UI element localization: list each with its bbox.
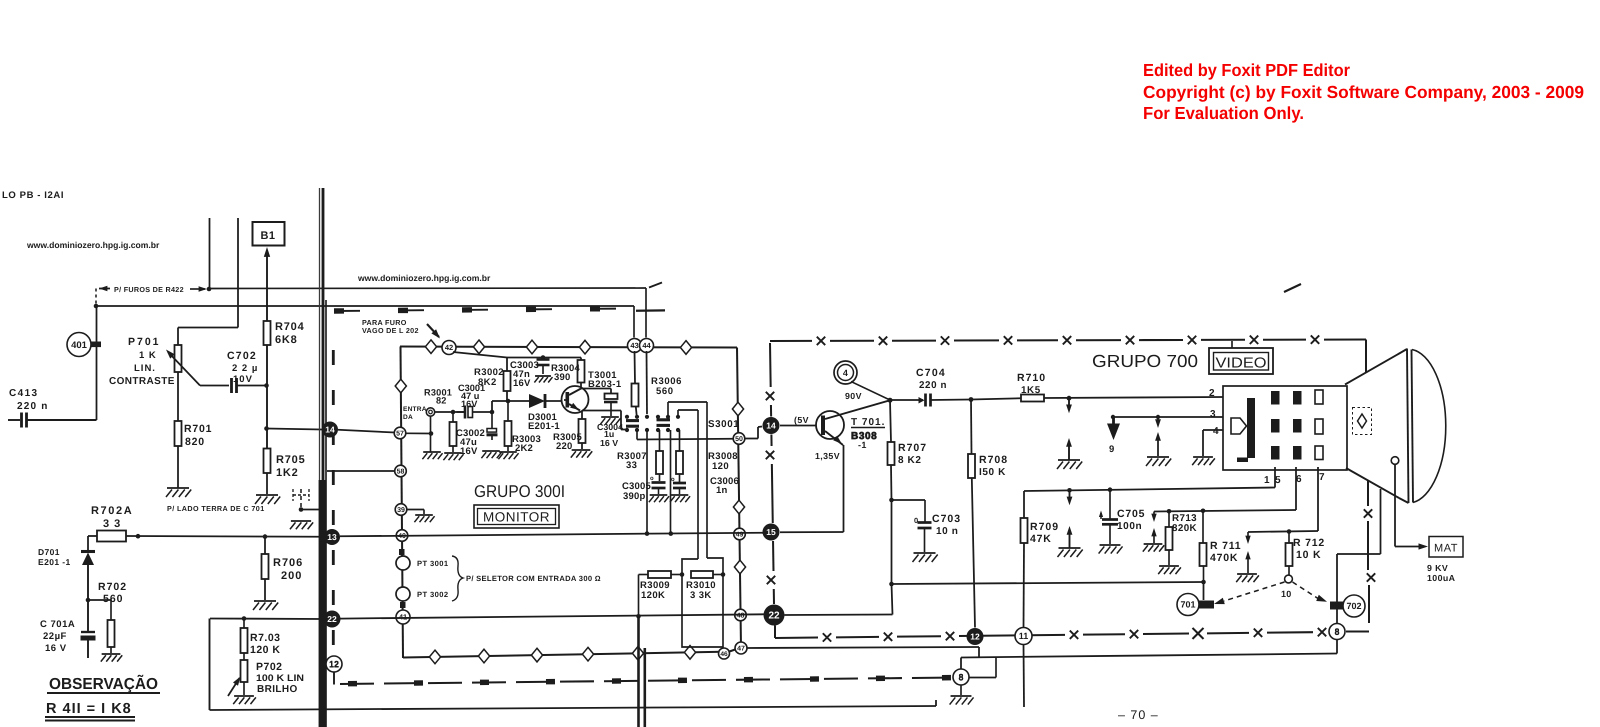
stray mark [649, 283, 662, 288]
junction [888, 398, 893, 403]
svg-text:R704: R704 [275, 321, 305, 333]
svg-text:43: 43 [630, 341, 638, 350]
svg-text:120 K: 120 K [250, 644, 281, 656]
node 701 [1177, 594, 1199, 616]
node 22R [764, 605, 785, 626]
svg-text:9 KV: 9 KV [1427, 563, 1448, 573]
svg-text:16 V: 16 V [45, 643, 67, 654]
svg-text:12: 12 [329, 659, 339, 669]
x mark [1126, 336, 1134, 344]
resistor R704 [264, 321, 305, 346]
wire R701 to ground [177, 446, 179, 488]
svg-text:P/ LADO TERRA DE C 701: P/ LADO TERRA DE C 701 [167, 504, 265, 513]
wire node11 down [1023, 645, 1026, 708]
label T3001 [588, 370, 622, 390]
ground [1099, 545, 1123, 554]
label R3008 [708, 451, 738, 472]
resistor R3002 [504, 358, 511, 402]
svg-text:46: 46 [720, 651, 728, 658]
svg-text:58: 58 [397, 469, 405, 476]
diamond marker right [734, 560, 745, 574]
ground [600, 417, 620, 424]
diamond marker left [395, 379, 406, 393]
wire R711 to 701 [1203, 582, 1205, 600]
x mark [946, 632, 954, 640]
svg-text:9: 9 [1109, 444, 1114, 455]
crt anode [1391, 457, 1399, 465]
capacitor C3005 [650, 476, 666, 494]
wire bus y617 node41 to node22R [340, 614, 764, 618]
diode D701 [81, 552, 95, 632]
grupo700 left dashed border [770, 343, 774, 604]
wire sec2 mid drop [669, 430, 674, 536]
pin label 3 [1210, 409, 1216, 420]
resistor R3005 [579, 411, 586, 450]
pin label 5 [1275, 475, 1281, 486]
wire pin6 riser [1295, 467, 1297, 510]
node 10 [1285, 575, 1293, 583]
ground [101, 654, 122, 662]
svg-text:7: 7 [1319, 472, 1325, 483]
svg-text:390p: 390p [623, 491, 645, 502]
point PT3002 [396, 587, 410, 601]
resistor R703 [241, 619, 281, 657]
label D3001 [528, 412, 560, 432]
svg-text:1n: 1n [716, 485, 728, 496]
diamond marker top [579, 340, 590, 354]
label R3010 [686, 580, 716, 601]
svg-text:For Evaluation Only.: For Evaluation Only. [1143, 103, 1304, 123]
label B308 [851, 431, 877, 450]
heavy dashed line bottom [340, 678, 955, 685]
Foxit watermark text line 3 [1143, 103, 1304, 123]
pin label 6 [1296, 474, 1302, 485]
potentiometer P701 [175, 345, 182, 372]
wire bus y536 R702A to node13 [126, 534, 324, 539]
svg-text:CONTRASTE: CONTRASTE [109, 376, 175, 387]
svg-text:1K2: 1K2 [276, 467, 299, 479]
pin block [1271, 446, 1302, 460]
capacitor C3006 [671, 477, 686, 494]
diamond marker right [733, 500, 744, 514]
box VIDEO [1209, 341, 1273, 374]
svg-text:C705: C705 [1117, 508, 1145, 520]
svg-text:50: 50 [735, 436, 743, 443]
wire to node 14L [267, 429, 323, 430]
svg-text:11: 11 [1019, 631, 1029, 641]
svg-text:47: 47 [737, 646, 745, 653]
label C3003 [510, 360, 539, 389]
switch S3001 [625, 415, 680, 432]
x mark [766, 392, 774, 400]
ground [253, 601, 278, 610]
wire crt coat down [1337, 489, 1381, 554]
wire P702 gnd [243, 682, 245, 695]
wire node43 drop [634, 351, 637, 384]
resistor R711 [1200, 511, 1207, 585]
diamond marker top [680, 341, 691, 355]
resistor R708 [968, 400, 975, 628]
svg-text:22: 22 [768, 611, 780, 622]
svg-text:4: 4 [1213, 426, 1219, 437]
svg-text:3 3K: 3 3K [690, 590, 712, 601]
svg-text:P/ SELETOR COM ENTRADA 300 Ω: P/ SELETOR COM ENTRADA 300 Ω [466, 574, 601, 583]
svg-text:C703: C703 [932, 513, 961, 525]
ground [255, 495, 280, 504]
svg-text:R707: R707 [898, 442, 927, 454]
label OBSERVACAO [47, 674, 160, 693]
svg-text:Edited by Foxit PDF Editor: Edited by Foxit PDF Editor [1143, 60, 1350, 80]
svg-text:R 4II = I K8: R 4II = I K8 [46, 701, 132, 717]
node 14R [763, 417, 780, 434]
diode D3001 [529, 394, 545, 408]
crt bell [1412, 350, 1446, 503]
ground [443, 453, 463, 460]
ground [534, 376, 552, 382]
wire 14L to node 57 [338, 430, 395, 433]
svg-text:560: 560 [103, 593, 124, 605]
svg-text:220: 220 [556, 441, 572, 452]
label R711 [1210, 540, 1241, 564]
svg-text:– 70 –: – 70 – [1118, 708, 1159, 722]
diamond marker top [473, 340, 484, 354]
svg-text:10 K: 10 K [1296, 549, 1321, 561]
wire P701 to R701 [177, 372, 179, 421]
svg-text:10: 10 [1281, 589, 1291, 599]
label R712 [1293, 537, 1325, 561]
wire R703 to P702 [243, 653, 245, 660]
junction [969, 397, 974, 402]
wire emitter to S3001 [582, 411, 626, 430]
model label PB-12AI [2, 190, 64, 201]
svg-text:C 701A: C 701A [40, 619, 75, 630]
resistor R709 [1021, 491, 1028, 628]
diamond marker bottom [478, 649, 489, 663]
node 22L [324, 611, 341, 628]
node 48 [735, 609, 747, 621]
svg-text:LIN.: LIN. [134, 363, 156, 374]
svg-text:R709: R709 [1030, 521, 1059, 533]
resistor R710 [1021, 395, 1044, 402]
svg-text:8: 8 [1334, 627, 1339, 637]
svg-text:8 K2: 8 K2 [898, 455, 922, 466]
box B1 [253, 222, 285, 246]
svg-text:DA: DA [403, 414, 413, 421]
node 8 [1329, 624, 1345, 640]
dashed arrow to 701 [1214, 582, 1285, 604]
page number [1118, 708, 1159, 722]
grupo700 corner right [1365, 340, 1367, 373]
diamond marker bottom [582, 647, 593, 661]
capacitor C705 [1102, 490, 1118, 544]
wire node42 diagonal [453, 352, 507, 358]
wire dashed jumper x96 [95, 289, 97, 307]
capacitor C703 [892, 500, 932, 552]
svg-text:www.dominiozero.hpg.ig.com.br: www.dominiozero.hpg.ig.com.br [26, 240, 160, 250]
crt funnel bottom [1346, 468, 1409, 503]
cathode arrow [1231, 418, 1247, 434]
stray mark [1284, 284, 1301, 292]
svg-text:R705: R705 [276, 454, 306, 466]
dashed arrow to 702 [1293, 582, 1328, 602]
label R3009 [640, 580, 670, 601]
wire feedback B drop to node 43 [633, 306, 635, 338]
ground [233, 696, 256, 704]
label C3006 [710, 476, 739, 496]
label C3004 [597, 422, 623, 448]
node 57 [394, 427, 406, 439]
Foxit watermark text line 1 [1143, 60, 1350, 80]
diamond marker bottom [531, 648, 542, 662]
wire pin7 riser [1317, 467, 1319, 531]
grupo700 right dashed border [1346, 480, 1369, 632]
svg-text:100 K LIN: 100 K LIN [256, 673, 304, 684]
resistor R3004 [578, 358, 585, 389]
junction [86, 598, 91, 603]
capacitor C702 [232, 378, 267, 393]
rail y357 [507, 355, 581, 360]
ground [498, 452, 518, 459]
crt faceplate [1407, 349, 1413, 504]
svg-text:22: 22 [327, 614, 337, 624]
label GRUPO 700 [1092, 351, 1198, 371]
capacitor C702 label [227, 350, 258, 385]
capacitor C413 [8, 413, 97, 428]
wire to node 58 [327, 470, 395, 472]
label PT3002 [417, 590, 449, 599]
svg-text:820K: 820K [1172, 523, 1197, 534]
brace seletor [452, 556, 463, 601]
socket box [1223, 386, 1347, 470]
node 46 [719, 648, 730, 659]
x mark [1188, 336, 1196, 344]
wire dashed arrow to R422 [99, 286, 112, 291]
svg-text:-1: -1 [858, 440, 867, 450]
node 8R [953, 669, 969, 685]
wire pin1 riser [1274, 467, 1276, 488]
resistor R3008 [676, 430, 683, 482]
Foxit watermark text line 2 [1143, 82, 1584, 102]
long bottom line [210, 700, 937, 710]
wire R710 to socket [1044, 396, 1223, 401]
monitor box right border [737, 348, 741, 649]
ground [422, 452, 442, 459]
resistor R705 [264, 449, 306, 480]
grupo700 corner left bottom [774, 626, 776, 639]
wire to R702 [88, 600, 111, 620]
svg-text:390: 390 [554, 372, 570, 383]
x mark [1311, 335, 1319, 343]
svg-text:MAT: MAT [1434, 543, 1458, 555]
diamond marker right [732, 402, 743, 416]
wire bottom bus [961, 654, 1337, 658]
svg-text:C702: C702 [227, 350, 257, 362]
svg-text:42: 42 [445, 343, 453, 352]
x mark [1130, 630, 1138, 638]
svg-text:39: 39 [397, 507, 405, 514]
svg-text:LO PB - I2AI: LO PB - I2AI [2, 190, 64, 201]
wire inset top to node 22L [210, 616, 324, 621]
spark gap left end [1143, 512, 1164, 552]
label C704 [916, 367, 947, 391]
label 135V [815, 451, 840, 461]
x mark [1004, 336, 1012, 344]
svg-text:16V: 16V [460, 446, 478, 457]
wire input sleeve [406, 416, 433, 452]
svg-text:R710: R710 [1017, 372, 1046, 384]
x mark [884, 633, 892, 641]
label P/ FUROS DE R422 [114, 285, 184, 294]
svg-text:R701: R701 [184, 423, 212, 435]
svg-text:E201-1: E201-1 [528, 421, 560, 432]
wire emitter down [843, 445, 845, 532]
svg-text:OBSERVAÇÃO: OBSERVAÇÃO [49, 674, 158, 693]
svg-text:R706: R706 [273, 557, 303, 569]
wire vertical x698 [697, 410, 699, 559]
svg-text:BRILHO: BRILHO [257, 684, 298, 695]
border tick [399, 549, 405, 555]
svg-text:2: 2 [1209, 388, 1215, 399]
url watermark center [357, 273, 491, 283]
svg-text:14: 14 [325, 425, 335, 435]
svg-text:100n: 100n [1117, 521, 1142, 532]
dashed ground gadget [293, 489, 322, 512]
resistor R701 [175, 421, 213, 448]
svg-text:R7.03: R7.03 [250, 632, 281, 644]
wire loop R3010 [682, 558, 723, 647]
node 44 [640, 339, 654, 353]
svg-text:401: 401 [71, 340, 88, 351]
node 15R [763, 524, 780, 541]
svg-text:D701: D701 [38, 547, 60, 557]
label C3002 [456, 428, 485, 457]
wire R707 down [889, 500, 894, 586]
dashed fold line [332, 350, 335, 656]
svg-text:Copyright (c) by Foxit Softwar: Copyright (c) by Foxit Software Company,… [1143, 82, 1584, 102]
svg-text:16V: 16V [513, 378, 531, 389]
box MONITOR [474, 505, 559, 528]
svg-text:P701: P701 [128, 336, 161, 348]
svg-text:MONITOR: MONITOR [483, 510, 550, 525]
x mark [817, 337, 825, 345]
wire pin4 gnd [1203, 430, 1223, 456]
svg-text:470K: 470K [1210, 552, 1238, 564]
label 10 [1281, 589, 1291, 599]
svg-text:1,35V: 1,35V [815, 451, 840, 461]
transistor T3001 [562, 386, 589, 413]
wire bus y535 node40 to node15 [340, 533, 764, 537]
svg-text:820: 820 [185, 436, 205, 448]
wire stub x238 [237, 218, 239, 328]
crt marker diamond [1353, 408, 1372, 435]
node 47 [735, 642, 747, 654]
x mark [767, 576, 775, 584]
wire R702 gnd [110, 647, 112, 653]
node 41 [396, 610, 410, 624]
label R3001 [424, 388, 452, 406]
x mark [1254, 629, 1262, 637]
wire node8R L [969, 657, 996, 677]
label R713 [1172, 513, 1197, 534]
svg-text:48: 48 [737, 613, 745, 620]
svg-text:5: 5 [1275, 475, 1281, 486]
wire node47 out [747, 647, 979, 658]
svg-text:15: 15 [766, 527, 776, 537]
resistor R3010 [691, 571, 725, 578]
svg-text:P/ FUROS DE R422: P/ FUROS DE R422 [114, 285, 184, 294]
wire vertical x96 to C413 [96, 306, 98, 420]
wire x238 to P701 top [178, 328, 238, 346]
crt funnel top [1345, 349, 1407, 385]
resistor R3009 [636, 571, 684, 619]
node 4 [834, 361, 857, 384]
node 14L [322, 422, 338, 438]
label PARA FURO [362, 318, 419, 335]
node 13L [324, 529, 340, 545]
wire R702A left [88, 536, 97, 551]
wire node8 down [1336, 640, 1338, 654]
wire vertical x707 [706, 402, 708, 558]
svg-text:VIDEO: VIDEO [1216, 356, 1267, 372]
wire feedback A y288 [209, 287, 646, 290]
svg-text:3 3: 3 3 [103, 518, 121, 530]
x mark [1367, 573, 1375, 581]
box MAT [1429, 537, 1463, 558]
monitor box left border [401, 347, 404, 659]
capacitor C704 [890, 394, 971, 407]
svg-text:GRUPO 700: GRUPO 700 [1092, 351, 1198, 371]
label 9KV [1427, 563, 1456, 583]
terminal 702 [1330, 602, 1348, 610]
ground [571, 450, 592, 458]
T701 collector [825, 400, 890, 419]
P701 wiper arrow [166, 350, 229, 386]
svg-text:E201 -1: E201 -1 [38, 557, 71, 567]
monitor box top border [400, 347, 737, 348]
label GRUPO 3001 [474, 482, 565, 501]
ground [950, 696, 974, 705]
wire y440 to node 50 [637, 438, 733, 441]
svg-text:16V: 16V [461, 399, 478, 409]
label R708 [979, 454, 1008, 478]
wire y401 [492, 399, 564, 404]
resistor R3007 [656, 430, 663, 481]
svg-text:13: 13 [327, 532, 337, 542]
svg-text:90V: 90V [845, 391, 862, 401]
arrow to node 42 [427, 324, 440, 339]
svg-text:22µF: 22µF [43, 631, 67, 642]
label lado terra [167, 504, 265, 513]
wire y490 bus [1024, 487, 1275, 492]
svg-text:www.dominiozero.hpg.ig.com.br: www.dominiozero.hpg.ig.com.br [357, 273, 491, 283]
x mark [1364, 509, 1372, 517]
diamond marker bottom [632, 646, 643, 660]
socket bar [1237, 398, 1255, 462]
wire R705 to ground [266, 473, 268, 494]
svg-text:100uA: 100uA [1427, 573, 1456, 583]
svg-text:120: 120 [712, 461, 729, 472]
svg-text:o: o [671, 477, 675, 483]
pin block [1271, 391, 1302, 405]
wire arrow into node [190, 286, 207, 291]
svg-text:C704: C704 [916, 367, 946, 379]
T3001 emitter [569, 403, 580, 411]
ground [649, 495, 669, 502]
capacitor C3004 [604, 394, 618, 417]
terminal 701 [1198, 601, 1215, 609]
spark gap [1057, 398, 1082, 469]
svg-text:33: 33 [626, 460, 637, 471]
